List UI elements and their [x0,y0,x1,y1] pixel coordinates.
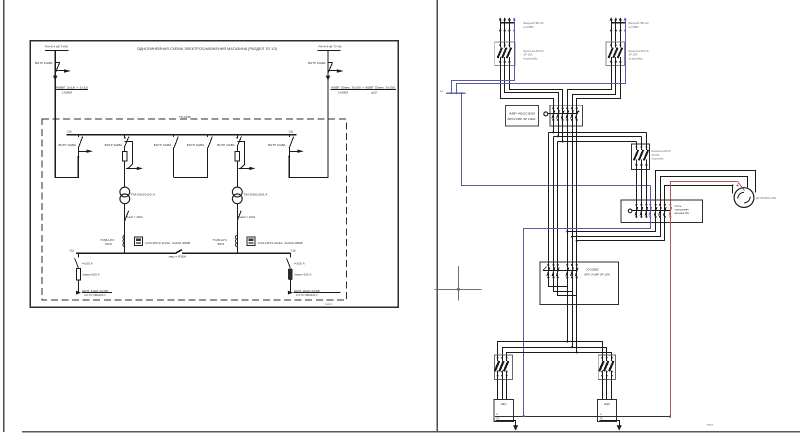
wire group1 phase B to ABP [505,66,559,106]
current transformer coils [235,235,237,239]
svg-text:СЧ-ТО 380/220 У: СЧ-ТО 380/220 У [84,293,106,297]
PE conductor with earth arrow 1ЩО [496,421,516,426]
svg-text:30/3: 30/3 [217,242,225,246]
wire neutral through contactor down blue [524,186,651,417]
svg-text:ВНТР 10кВА: ВНТР 10кВА [217,143,235,147]
switch VNTR on HV bus [78,135,80,138]
svg-text:3Р 25А: 3Р 25А [629,53,638,57]
switch VNTR on HV bus [173,135,175,138]
wire incoming right feeder W2 [289,50,328,177]
svg-text:Выключатель ВА47-29: Выключатель ВА47-29 [524,49,544,53]
disconnector left feeder QS0-1 [55,62,59,64]
LV feeder fuse [76,269,80,280]
svg-text:нн ПВМ: нн ПВМ [524,25,534,29]
ShchS actuator line with blade [543,270,577,272]
input breaker box [495,42,516,65]
wire incoming left feeder W1 [55,50,78,177]
energy meter box [247,237,255,246]
svg-text:N: N [600,413,602,416]
wire motor phase 3 [665,186,733,205]
earthing switch branch with arrow [125,142,133,165]
lighting contactor coil [628,209,632,213]
LV bus 0.4kV [76,252,176,254]
svg-text:СА4-И672 2Н4А, 3х220-380В: СА4-И672 2Н4А, 3х220-380В [258,241,303,245]
fan breaker poles [636,144,638,150]
svg-text:нвд = 630А: нвд = 630А [169,254,187,258]
svg-text:СЧ-ТО 380/220 У: СЧ-ТО 380/220 У [296,293,318,297]
wire neutral riser down blue [462,94,651,186]
energy meter box [135,237,143,246]
svg-text:магазина ПЩ: магазина ПЩ [675,211,689,215]
wire neutral group2 blue [457,66,626,93]
panel breaker poles 2ЩО [602,355,604,361]
disconnector right feeder QS0-2 [328,62,332,64]
panel breaker box 1ЩО [495,355,513,379]
svg-text:Вводной ПВ1-63: Вводной ПВ1-63 [524,21,545,25]
phase wires from top [500,19,502,43]
svg-text:ВНТР 10кВА: ВНТР 10кВА [187,143,205,147]
LV riser from transformer [237,204,239,254]
svg-text:АВР 40/2СФ30: АВР 40/2СФ30 [508,112,536,116]
transformer TM-630 circles [232,187,242,197]
destination arrow and label [288,291,293,295]
top crossbar [611,22,625,24]
transformer feeder switch [237,135,239,138]
wire output A split [498,342,603,356]
PE conductor with earth arrow 2ЩО [600,421,620,426]
wires breaker to panel 1ЩО [497,380,499,400]
wire lighting return 3 [577,217,665,241]
wire motor control red [671,182,738,205]
input breaker box [606,42,625,65]
wire ABP reserve phases down [567,126,569,342]
svg-text:Рн=0.4 кВ ТУ60: Рн=0.4 кВ ТУ60 [45,45,68,49]
neutral through box [514,42,516,65]
svg-text:Рн=0.4 кВ ТУ-60: Рн=0.4 кВ ТУ-60 [319,45,342,49]
svg-text:ТП-15кВ: ТП-15кВ [179,115,191,119]
svg-text:СШ: СШ [289,130,294,134]
svg-text:ВНТР 10кВА: ВНТР 10кВА [154,143,172,147]
svg-text:Сеть: Сеть [675,204,683,208]
ShchS switch box [540,262,619,305]
svg-text:освещенная: освещенная [675,209,690,212]
svg-text:ВРУ2ХВР 3Р 100А: ВРУ2ХВР 3Р 100А [508,117,536,121]
ABP actuator line [548,113,577,115]
svg-text:1А05М: 1А05М [62,90,73,94]
svg-text:СА4-И672 2Н4А, 3х220-380В: СА4-И672 2Н4А, 3х220-380В [145,241,190,245]
LV feeder fuse [288,269,293,280]
svg-text:на дин-рейку: на дин-рейку [524,56,539,60]
svg-text:АРС-Н-ВР 3Р 10А: АРС-Н-ВР 3Р 10А [583,273,611,277]
LV switch under transformer [125,211,129,221]
svg-text:30/3: 30/3 [105,242,113,246]
svg-text:ф1Л: ф1Л [371,90,377,94]
LV feeder cable down [78,280,80,294]
wire ABP out1 jog with tap H1 [549,126,554,263]
svg-text:1анб = 100А: 1анб = 100А [239,215,255,219]
supply arrows at top of feeder group [610,17,613,20]
wire lighting return 2 [573,217,661,237]
panel breaker poles 1ЩО [497,355,499,361]
fuse on transformer feeder [237,146,239,152]
sheet bottom border [22,431,800,433]
wire section link U loop [174,177,208,179]
svg-text:ТМ-630/10/0,4: ТМ-630/10/0,4 [243,192,268,196]
svg-text:лист: лист [325,302,334,306]
wire group1 phase C to ABP [510,66,563,106]
wire lighting return 1 [568,217,656,232]
fuse on transformer feeder [124,146,126,152]
svg-text:1А05М: 1А05М [338,90,349,94]
breaker poles [500,42,502,47]
neutral wire from top [514,19,516,43]
ShchS left wires jog to outputs [549,278,568,287]
earthing switch branch with arrow [238,142,245,165]
wire output C split [507,353,612,356]
switch VNTR on HV bus [289,135,291,138]
cable arrow down right feeder [326,76,331,81]
wire group2 phase B to ABP [573,66,616,106]
wire red control down to N bus [670,217,672,418]
svg-text:2ЩО: 2ЩО [604,402,610,406]
LV bus section switch [175,250,182,254]
svg-text:N: N [496,413,498,416]
switch spur arrow [78,151,86,153]
svg-text:Вводной ПВ1-63: Вводной ПВ1-63 [629,21,650,25]
neutral rail N [446,92,466,94]
motor fan M1 [734,188,754,208]
lighting contactor box [621,200,702,222]
svg-text:2ОО2ВВС: 2ОО2ВВС [585,268,599,272]
ABP contacts dots and blades [553,105,555,126]
HV bus 10kV [67,134,297,136]
spur arrow left feeder [55,70,64,72]
wires fan breaker to lighting contactor [636,169,638,204]
svg-text:ТМ-630/10/0,4: ТМ-630/10/0,4 [131,192,156,196]
svg-text:ВНТР 10кВА: ВНТР 10кВА [105,143,123,147]
LV feeder switch [290,253,292,257]
svg-text:1анб = 100А: 1анб = 100А [127,215,143,219]
ABP label box [506,105,539,126]
switch VNTR on HV bus [207,135,209,138]
svg-text:ВНТР 10кВА: ВНТР 10кВА [35,61,53,65]
LV feeder switch [78,253,80,257]
ABP contact zone box [550,105,582,126]
switch spur arrow [289,151,297,153]
transformer feeder switch [124,135,126,138]
wire group1 phase A to ABP [501,66,554,106]
svg-text:ВНТР 10кВА: ВНТР 10кВА [268,143,286,147]
wire motor phase 2 [661,177,748,205]
svg-text:Выключатель ВА47-29: Выключатель ВА47-29 [629,49,649,53]
wire motor phase 1 [656,171,756,205]
ABP coil circle [544,112,548,116]
LV riser from transformer [124,204,126,254]
svg-text:ДП РВ Ф40кл РШ: ДП РВ Ф40кл РШ [756,196,777,200]
svg-text:ТУАВ-НУЗ: ТУАВ-НУЗ [213,238,227,242]
neutral through box [625,42,627,65]
LV switch under transformer [237,211,241,221]
wire group2 phase A to ABP [568,66,612,106]
top crossbar [500,22,514,24]
svg-text:Імакс=100 А: Імакс=100 А [83,272,100,276]
panel box 1ЩО [494,400,513,422]
CAD origin marker cross [434,289,481,291]
cable arrow down left feeder [53,76,58,81]
svg-text:І=100 А: І=100 А [82,261,93,265]
svg-text:І=100 А: І=100 А [294,261,305,265]
svg-text:на дин-рейку: на дин-рейку [652,156,665,160]
ShchS contact stubs [548,262,550,277]
wire ABP out3 jog with tap H3 [558,126,563,263]
left drawing frame [30,41,398,307]
wire ABP out2 jog with tap H2 [554,126,559,263]
destination arrow and label [76,291,81,295]
svg-text:ТУАВ-НУЗ: ТУАВ-НУЗ [100,238,114,242]
wire neutral group1 blue [452,66,515,93]
neutral wire from top [625,19,627,43]
panel breaker box 2ЩО [598,355,615,379]
svg-text:3Р 25А: 3Р 25А [524,53,533,57]
svg-text:3Р 25А: 3Р 25А [652,153,660,157]
wire group2 phase C to ABP [577,66,621,106]
svg-text:пш: пш [440,90,443,93]
svg-text:лист: лист [707,423,715,427]
lighting contactor contacts [636,205,638,217]
svg-text:ВНТР 10кВА: ВНТР 10кВА [308,61,326,65]
N bus bottom wire [495,416,670,418]
wire output B split [503,348,607,356]
breaker poles [611,42,613,47]
svg-text:нн ПВМ: нн ПВМ [629,25,639,29]
svg-text:Імакс=100 А: Імакс=100 А [295,272,312,276]
transformer TM-630 circles [120,187,130,197]
svg-text:Выключатель ВА47-29: Выключатель ВА47-29 [652,149,671,153]
svg-text:ВНТР 10кВА: ВНТР 10кВА [59,143,77,147]
lighting contactor actuator [632,210,671,212]
panel box 2ЩО [598,400,617,422]
ShchS contacts [547,264,549,266]
svg-text:СШ: СШ [67,130,72,134]
svg-text:СШ: СШ [291,248,296,252]
supply arrows at top of feeder group [499,17,502,20]
svg-text:ОДНОЛИНЕЙНАЯ СХЕМА ЭЛЕКТРОСНАБ: ОДНОЛИНЕЙНАЯ СХЕМА ЭЛЕКТРОСНАБЖЕНИЯ МАГА… [137,47,277,51]
current transformer coils [123,235,125,239]
LV feeder cable down [290,280,292,294]
svg-text:на дин-рейку: на дин-рейку [629,56,644,60]
svg-text:СШ: СШ [70,248,75,252]
sheet left border [3,0,5,432]
phase wires from top [611,19,613,43]
wires breaker to panel 2ЩО [602,380,604,400]
fan breaker wires down [646,133,648,145]
sheet separator border [436,0,438,432]
spur arrow right feeder [328,70,337,72]
substation dashed boundary TP [42,119,346,300]
fan breaker box VA47 [632,144,650,169]
svg-text:1ЩО: 1ЩО [500,402,506,406]
